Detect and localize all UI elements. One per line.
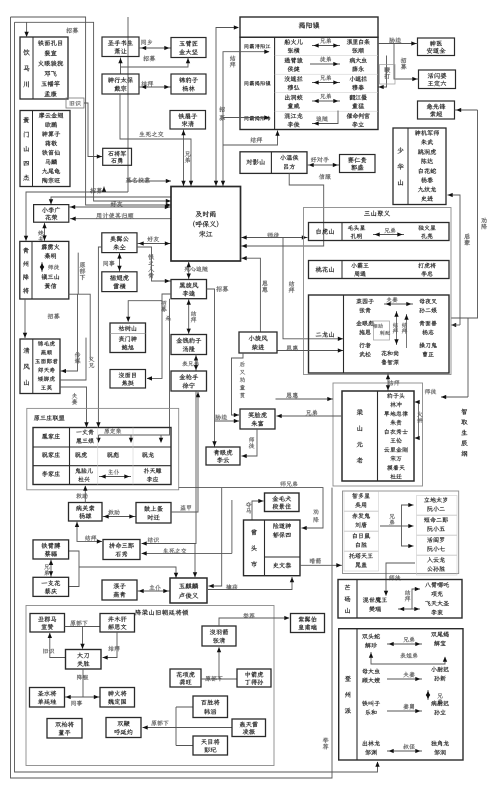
- wire 夫妻 王英-扈三娘: [72, 393, 78, 405]
- box 石将军石勇: [103, 148, 132, 165]
- wire 信服: [242, 173, 324, 246]
- wire 招募 into 黄门山: [26, 192, 128, 241]
- wire 结拜 宋江-武松: [283, 238, 343, 339]
- box 金钱豹子汤隆: [171, 335, 207, 355]
- group 梁山元老: [342, 391, 414, 481]
- wire 兄弟 朱富朱贵: [306, 410, 317, 416]
- wire 结拜 鲁智深-林冲: [387, 373, 389, 391]
- box 金枪手徐宁: [171, 371, 207, 391]
- table 白虎山: [309, 223, 450, 241]
- box 锦豹子杨林: [171, 74, 206, 94]
- wire 生死之交 戴宗-宋江: [120, 94, 191, 187]
- group 生辰纲: [343, 491, 459, 574]
- wire 生死之交 石秀: [163, 548, 186, 553]
- box 双鞭呼延灼: [106, 718, 141, 738]
- wire x128 mumingtoukao: [127, 17, 129, 192]
- wire 原部下 bracket: [78, 253, 90, 360]
- box 金毛犬段景住: [265, 493, 300, 512]
- wire 兄弟 bracket 阮氏: [389, 514, 394, 525]
- group 清风山: [20, 339, 60, 394]
- wire 卢俊义顶部arrows: [194, 544, 196, 579]
- table 桃花山: [309, 261, 450, 279]
- group 降梁山旧朝廷将领: [26, 606, 274, 766]
- wire 师徒 公孙胜-樊瑞: [389, 575, 400, 580]
- wire 表兄弟: [182, 361, 198, 366]
- wire 举荐 张清-皇甫端: [243, 613, 255, 619]
- group 枯树山: [110, 323, 146, 353]
- group 原三庄联盟 outer: [27, 408, 179, 489]
- group 曾头市: [244, 520, 301, 576]
- box 没面目焦挺: [110, 370, 146, 389]
- wire 旧识: [43, 649, 54, 654]
- wire top to yinmachuan: [15, 22, 172, 201]
- wire 火併: [417, 412, 423, 423]
- box 轰天雷凌振: [232, 719, 266, 737]
- box 百胜将韩滔: [193, 696, 228, 718]
- box 病关索杨雄: [69, 503, 103, 522]
- box 紫髯伯皇甫端: [291, 614, 325, 633]
- box 丑郡马宣赞: [30, 614, 65, 633]
- wire 宋江-揭阳镇 header: [216, 28, 238, 187]
- wire 主仆: [149, 585, 160, 591]
- box 拼命三郎石秀: [103, 540, 140, 560]
- wire 结拜 bottom: [223, 131, 278, 146]
- wire 杀 李逵-祝家庄: [165, 315, 171, 320]
- wire 蔡福蔡庆-卢俊义: [69, 551, 79, 587]
- wire y487.6 师兄弟/劝降/卢俊义: [179, 488, 323, 528]
- box 小旋风柴进: [239, 332, 277, 353]
- wire 结识 徐宁?-石秀: [148, 537, 159, 542]
- box 铁臂膊蔡福: [33, 540, 69, 559]
- wire 李逵-枯树山-焦挺 招募: [147, 294, 171, 378]
- wire 暗箭 史文恭-晁盖: [310, 558, 321, 564]
- wire 恩惠 宋江-柴进: [242, 258, 261, 332]
- label 鞭打: [379, 56, 387, 88]
- wire 招募 清风山: [24, 299, 26, 338]
- wire 夺马: [246, 502, 252, 514]
- box 中箭虎丁得孙: [237, 669, 271, 687]
- box 圣水将单廷珪: [30, 688, 65, 708]
- group 饮马川: [20, 37, 68, 99]
- wire 结拜 杨雄-石秀: [85, 535, 96, 540]
- box 神行太保戴宗: [102, 74, 139, 94]
- box 浪子燕青: [102, 580, 137, 600]
- wire 结拜 郝思文-关胜: [109, 646, 120, 651]
- box 鼓上蚤时迁: [136, 503, 171, 524]
- wire 恩惠2: [286, 392, 298, 398]
- box 活闪婆王定六: [419, 70, 456, 89]
- box 赛仁贵郭盛: [340, 155, 376, 173]
- box 双枪将董平: [47, 719, 82, 739]
- wire 兄弟 宋清-宋江: [183, 129, 185, 187]
- wire 盗甲 时迁-徐宁: [180, 505, 191, 511]
- box 美髯公朱仝: [102, 233, 137, 253]
- group 梁山元老 outer: [333, 383, 423, 486]
- wire top frame to songjiang: [11, 17, 172, 205]
- group 少华山: [393, 128, 446, 205]
- group 揭阳镇: [240, 17, 378, 37]
- box 笑脸虎朱富: [240, 409, 275, 429]
- wire 劝降 索超: [455, 109, 478, 111]
- wire 柴进-朱富: [232, 353, 244, 415]
- box 花项虎龚旺: [170, 669, 201, 687]
- box 玉臂匠金大坚: [171, 38, 206, 58]
- box 一支花蔡庆: [33, 577, 69, 596]
- box 玉麒麟卢俊义: [170, 578, 207, 603]
- wire 降服: [77, 675, 88, 681]
- box 小李广花荣: [34, 205, 69, 223]
- wire 传媒: [75, 352, 81, 364]
- box 插翅虎雷横: [102, 272, 137, 292]
- label 旧识: [66, 98, 84, 108]
- wire left-frame inner: [15, 22, 378, 772]
- wire 原部下-关胜: [82, 627, 84, 649]
- wire 救助 杨雄-时迁: [108, 510, 119, 515]
- group 青州降将: [20, 241, 69, 299]
- wire 死心追随: [185, 266, 209, 272]
- group 登州派: [339, 629, 463, 760]
- box 急先锋索超: [418, 101, 455, 119]
- box 圣手书生萧让: [102, 37, 139, 57]
- group 黄门山四杰: [20, 111, 70, 187]
- group 三山聚义: [304, 208, 452, 375]
- wire 原部下 呼延灼: [151, 720, 168, 725]
- box 宋江 及时雨呼保义: [171, 187, 241, 262]
- wire 师徒 孔明孔亮-宋江: [268, 232, 280, 238]
- wire 师徒 林冲: [425, 389, 436, 394]
- box 铁扇子宋清: [170, 111, 206, 130]
- table 二龙山: [309, 295, 450, 373]
- wire 结拜 bracket: [223, 52, 269, 187]
- box 没羽箭张清: [202, 626, 236, 646]
- wire 结拜 李逵-汤隆: [188, 299, 190, 335]
- box 大刀关胜: [66, 650, 102, 670]
- wire 启蒙 史进: [448, 195, 461, 325]
- wire left-frame outer: [11, 17, 333, 778]
- wire 师徒 朱富-李云: [242, 429, 258, 456]
- box 神火将魏定国: [100, 688, 135, 708]
- box 黑旋风李逵: [171, 280, 207, 299]
- table 原三庄: [33, 428, 171, 485]
- box 天目将彭玘: [193, 736, 228, 755]
- box 青眼虎李云: [206, 447, 240, 465]
- wire 恩惠 柴进-武松: [286, 345, 298, 351]
- box 井木犴郝思文: [100, 614, 135, 633]
- group 芒砀山: [338, 580, 462, 619]
- label 智取生辰纲: [461, 409, 467, 457]
- wire 李逵-朱富-李云: [207, 289, 215, 447]
- wire 义兄: [89, 357, 95, 368]
- group 对影山: [240, 152, 307, 174]
- wire 恨之入骨 朱仝-李逵: [148, 254, 154, 278]
- box 神医安道全: [418, 38, 455, 56]
- wire 擒获 卢俊义-史文恭: [226, 584, 238, 590]
- wire 救助 杨雄-杜兴: [76, 493, 87, 498]
